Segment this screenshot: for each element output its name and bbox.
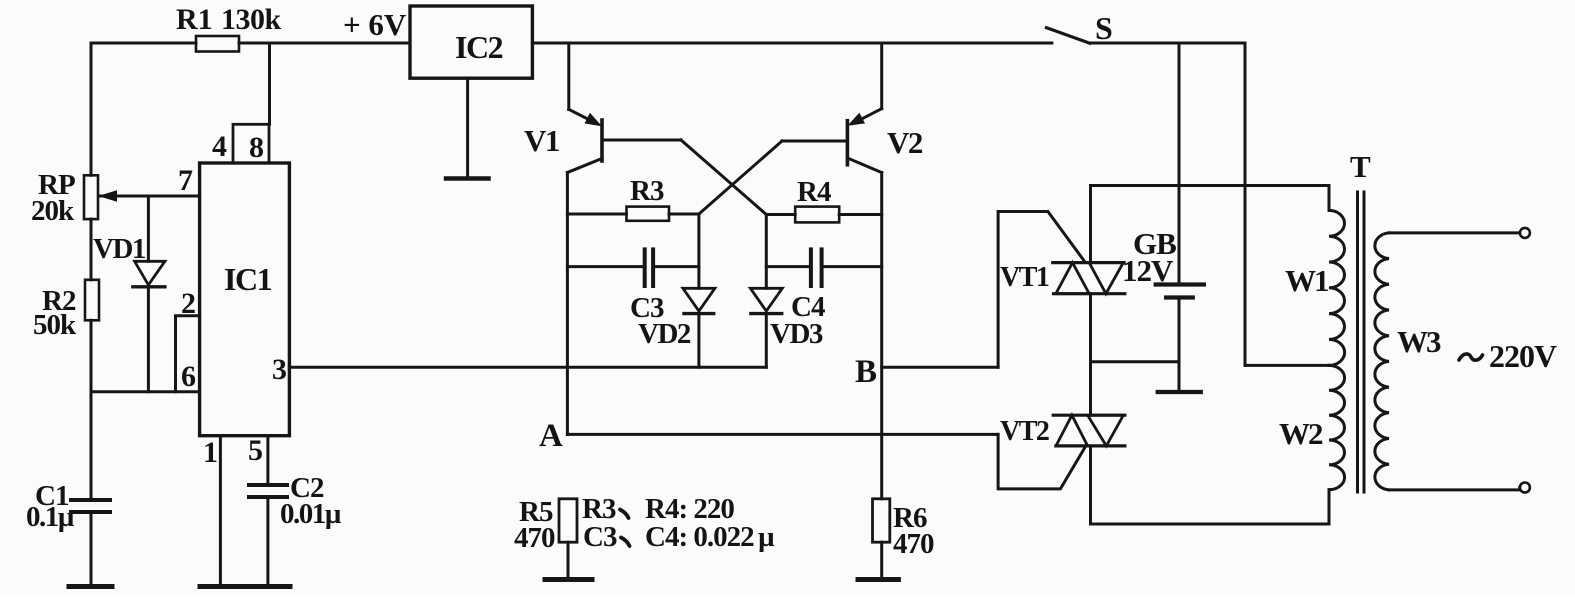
- winding W3: [1375, 233, 1441, 490]
- svg-text:R4: R4: [797, 176, 831, 208]
- wire V1 base cross to R4 node: [681, 140, 766, 215]
- wire RP to R2: [90, 219, 93, 280]
- terminal bottom: [1520, 483, 1530, 493]
- label values C3 C4: [583, 521, 775, 553]
- svg-text:8: 8: [249, 131, 264, 164]
- wire left rail top: [90, 43, 93, 175]
- svg-text:7: 7: [178, 164, 193, 197]
- wire switch to right corner: [1090, 42, 1245, 45]
- svg-text:VT2: VT2: [1000, 416, 1049, 447]
- potentiometer RP: [31, 169, 98, 227]
- resistor R6: [873, 499, 935, 577]
- svg-text:470: 470: [514, 522, 555, 554]
- svg-text:B: B: [855, 354, 877, 390]
- pin 7: [98, 164, 200, 202]
- node B wire: [855, 354, 998, 390]
- svg-text:130k: 130k: [221, 3, 282, 36]
- ground C1: [69, 584, 112, 589]
- svg-text:50k: 50k: [33, 309, 77, 341]
- resistor R5: [514, 496, 577, 577]
- resistor R4: [766, 176, 881, 222]
- IC1 555 timer: [200, 163, 290, 436]
- ground C2: [246, 584, 290, 589]
- wire VT2 bottom to W2: [1091, 523, 1330, 526]
- VT2 gate path from A: [998, 434, 1085, 489]
- svg-text:R3: R3: [630, 175, 664, 207]
- svg-text:C3: C3: [583, 521, 617, 553]
- pin 1 wire: [203, 436, 220, 584]
- svg-text:1: 1: [203, 436, 218, 469]
- wire rail corner down to tap: [1244, 43, 1247, 365]
- svg-text:20k: 20k: [31, 195, 75, 227]
- svg-text:6: 6: [181, 360, 196, 393]
- label values R3 R4: [582, 493, 734, 525]
- triac VT2: [1000, 415, 1125, 524]
- resistor R1: [196, 36, 239, 52]
- wire junction down to pin8 box: [268, 43, 271, 124]
- svg-text:220V: 220V: [1489, 338, 1557, 374]
- pin 2 jog: [176, 287, 200, 392]
- wire W3 top output: [1389, 231, 1520, 234]
- svg-text:µ: µ: [758, 521, 775, 553]
- diode VD3: [750, 288, 822, 367]
- svg-text:VD2: VD2: [638, 318, 691, 350]
- wire V2 base cross to R3 node: [699, 141, 782, 214]
- svg-text:470: 470: [893, 528, 934, 560]
- VT1 gate path from B: [998, 212, 1085, 368]
- node X2 vertical: [765, 215, 768, 289]
- diode VD2: [638, 288, 715, 367]
- svg-text:W2: W2: [1279, 416, 1323, 451]
- triac VT1: [1000, 186, 1125, 416]
- svg-text:VD3: VD3: [770, 318, 823, 350]
- winding W1: [1285, 186, 1345, 366]
- svg-text:W1: W1: [1285, 263, 1328, 298]
- pin 4/8 box: [212, 124, 269, 164]
- svg-text:V2: V2: [887, 125, 923, 160]
- capacitor C2: [249, 472, 342, 584]
- svg-text:3: 3: [272, 353, 287, 386]
- wire W3 bottom output: [1389, 488, 1520, 490]
- resistor R3: [567, 175, 699, 221]
- transistor V2: [782, 43, 923, 173]
- winding W2: [1279, 365, 1345, 524]
- ground pin1: [200, 584, 243, 589]
- wire IC2 output to switch: [532, 42, 1052, 45]
- wire VT1 top to W1: [1091, 184, 1330, 187]
- wire V2 collector vertical: [880, 173, 883, 499]
- svg-text:V1: V1: [524, 123, 559, 158]
- svg-text:IC2: IC2: [455, 29, 503, 65]
- svg-text:C4: 0.022: C4: 0.022: [645, 521, 754, 553]
- capacitor C3: [567, 249, 699, 324]
- node A wire: [539, 418, 998, 454]
- battery GB: [1122, 43, 1204, 392]
- diode VD1: [93, 196, 165, 392]
- wire R1 to IC2: [239, 42, 410, 45]
- capacitor C4: [766, 249, 881, 323]
- svg-text:4: 4: [212, 130, 227, 163]
- pin 6 wire: [91, 360, 200, 393]
- svg-text:T: T: [1350, 149, 1371, 184]
- transistor V1: [524, 43, 681, 173]
- svg-text:IC1: IC1: [224, 261, 272, 297]
- svg-text:0.01µ: 0.01µ: [280, 498, 342, 530]
- ground IC2: [446, 176, 489, 181]
- capacitor C1: [26, 480, 110, 584]
- svg-text:+ 6V: + 6V: [343, 7, 407, 42]
- pin 5 wire: [248, 434, 268, 484]
- wire VT mid to battery: [1091, 360, 1180, 363]
- resistor R2: [33, 280, 99, 341]
- terminal top: [1520, 228, 1530, 238]
- switch S: [1047, 10, 1113, 46]
- svg-text:5: 5: [248, 434, 263, 467]
- svg-text:A: A: [539, 418, 563, 454]
- svg-text:0.1µ: 0.1µ: [26, 501, 75, 533]
- wire top rail left segment: [91, 42, 196, 45]
- pin 3 wire: [272, 353, 766, 386]
- svg-text:R1: R1: [176, 3, 213, 36]
- wire R2 down to C1: [90, 320, 93, 498]
- wire center tap: [1245, 364, 1329, 367]
- svg-text:W3: W3: [1397, 324, 1441, 359]
- wire IC2 ground stem: [466, 78, 469, 177]
- svg-text:VT1: VT1: [1000, 262, 1049, 293]
- transformer core T: [1350, 149, 1371, 492]
- label 220V: [1459, 338, 1557, 374]
- node X1 vertical: [697, 214, 700, 288]
- regulator IC2: [410, 6, 532, 78]
- wire V1 collector vertical: [566, 173, 569, 435]
- ground R6: [858, 577, 898, 582]
- svg-text:S: S: [1095, 10, 1113, 46]
- ground R5: [545, 577, 592, 582]
